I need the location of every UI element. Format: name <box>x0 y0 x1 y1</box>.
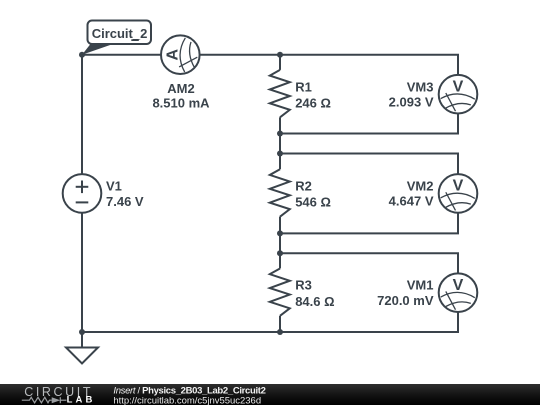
wire middle rail top lead <box>279 55 281 70</box>
svg-text:720.0 mV: 720.0 mV <box>377 293 434 308</box>
svg-text:R2: R2 <box>295 179 312 194</box>
voltmeter VM2 <box>439 174 478 213</box>
svg-text:VM2: VM2 <box>407 179 434 194</box>
junction node R1 bottom <box>277 131 283 137</box>
wire ammeter to top-right corner <box>200 55 458 75</box>
wire row VM2 bottom <box>280 213 458 234</box>
resistor R1 <box>270 70 290 117</box>
label Circuit_2 tail <box>82 44 113 55</box>
Circuit_2 label underscore <box>131 39 139 41</box>
junction node bottom-left <box>79 329 85 335</box>
junction node R2 bottom <box>277 230 283 236</box>
wire middle rail R3 to bottom <box>279 316 281 332</box>
wire left rail lower (V1 to bottom node) <box>81 213 83 332</box>
wire row VM2 top <box>280 154 458 175</box>
svg-text:VM1: VM1 <box>407 278 434 293</box>
svg-text:2.093 V: 2.093 V <box>389 95 434 110</box>
junction node R3 top <box>277 250 283 256</box>
svg-text:Circuit_2: Circuit_2 <box>92 26 148 41</box>
ground <box>66 348 98 364</box>
resistor R2 <box>270 169 290 216</box>
ammeter AM2 <box>161 35 200 74</box>
svg-text:A: A <box>164 48 181 60</box>
voltage source V1 <box>63 174 102 213</box>
wire row VM3 bottom <box>280 114 458 134</box>
wire top-left to ammeter <box>82 54 161 56</box>
svg-text:7.46 V: 7.46 V <box>106 194 144 209</box>
svg-text:VM3: VM3 <box>407 79 434 94</box>
svg-text:V: V <box>453 277 464 294</box>
svg-text:84.6 Ω: 84.6 Ω <box>295 294 334 309</box>
junction node R2 top <box>277 151 283 157</box>
svg-text:http://circuitlab.com/c5jnv55u: http://circuitlab.com/c5jnv55uc236d <box>113 395 261 405</box>
wire left rail upper (node to V1) <box>81 55 83 174</box>
svg-text:R1: R1 <box>295 79 312 94</box>
logo wire squiggle with resistor and diode <box>22 397 67 403</box>
junction node top-left <box>79 52 85 58</box>
wire bottom row <box>82 312 458 332</box>
footer bar <box>0 384 540 405</box>
wire row VM1 top <box>280 253 458 273</box>
svg-text:546 Ω: 546 Ω <box>295 195 331 210</box>
wire ground stub <box>81 332 83 348</box>
svg-text:246 Ω: 246 Ω <box>295 95 331 110</box>
voltmeter VM3 <box>439 75 478 114</box>
resistor R3 <box>270 268 290 315</box>
label Circuit_2 bubble <box>88 21 152 45</box>
junction node R3 bottom <box>277 329 283 335</box>
voltmeter VM1 <box>439 273 478 312</box>
svg-text:4.647 V: 4.647 V <box>389 194 434 209</box>
junction node R1 top <box>277 52 283 58</box>
svg-text:V: V <box>453 178 464 195</box>
wire middle rail R2-R3 <box>279 217 281 269</box>
svg-text:V: V <box>453 78 464 95</box>
svg-text:8.510 mA: 8.510 mA <box>152 96 210 111</box>
svg-text:AM2: AM2 <box>167 81 194 96</box>
svg-text:LAB: LAB <box>67 395 96 405</box>
wire middle rail R1-R2 <box>279 117 281 169</box>
svg-text:R3: R3 <box>295 278 312 293</box>
svg-text:V1: V1 <box>106 178 122 193</box>
